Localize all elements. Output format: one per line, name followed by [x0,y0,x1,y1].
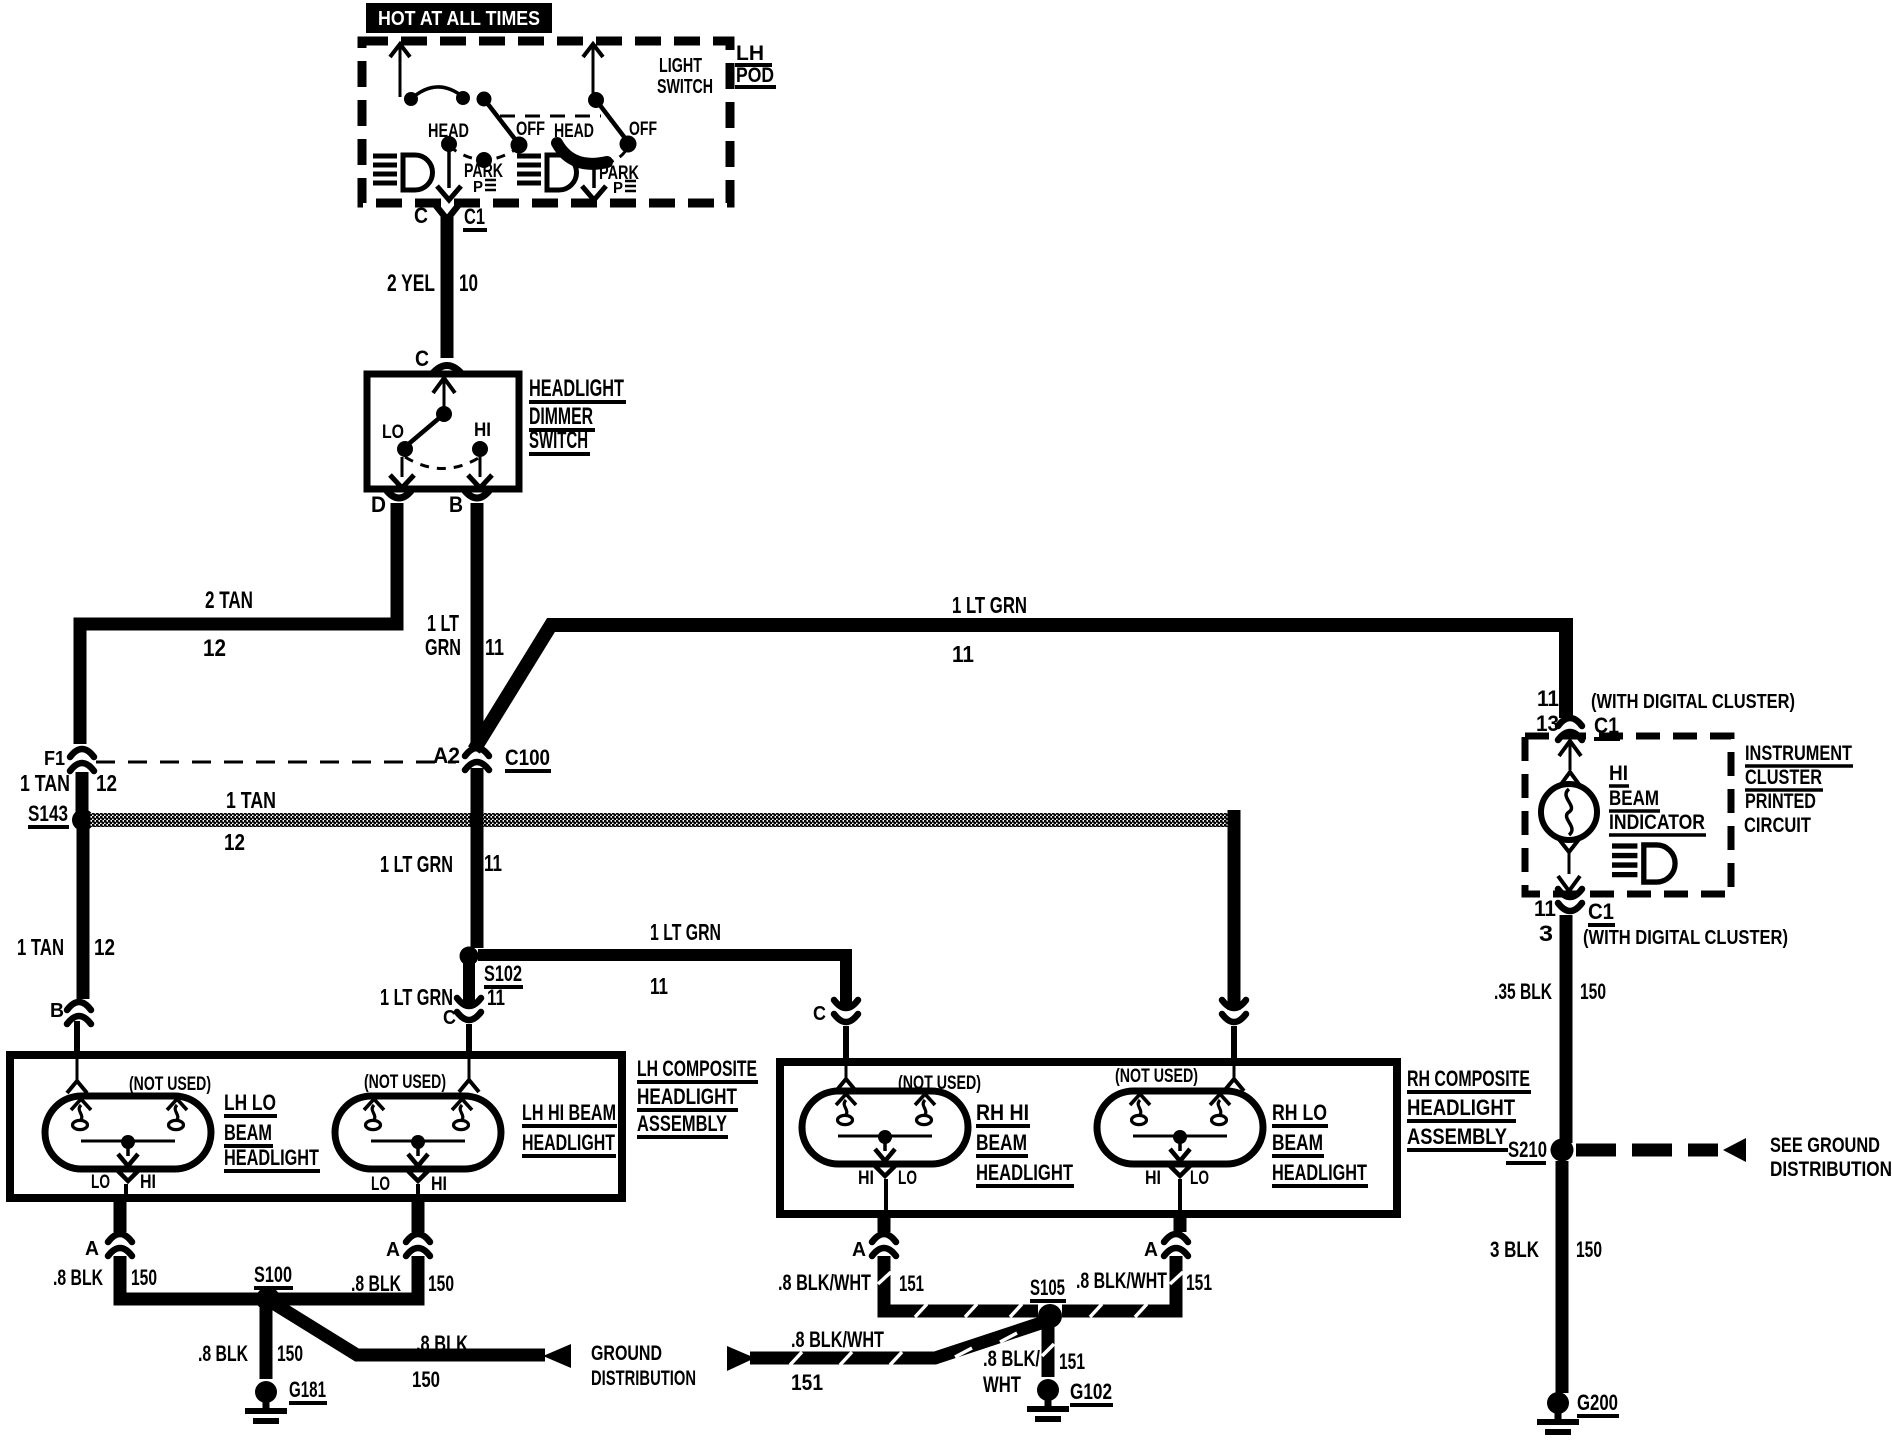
svg-text:LH HI BEAM: LH HI BEAM [522,1100,616,1125]
svg-text:1 TAN: 1 TAN [226,787,276,813]
svg-text:BEAM: BEAM [1609,787,1659,810]
dashed wire to ground distribution [1576,1144,1718,1157]
svg-text:12: 12 [96,770,117,796]
svg-text:C: C [443,1007,456,1029]
svg-text:GRN: GRN [425,634,461,660]
svg-text:G102: G102 [1070,1379,1112,1404]
svg-text:1 LT: 1 LT [427,610,459,636]
label LH LO BEAM HEADLIGHT [224,1090,320,1171]
svg-text:12: 12 [224,829,245,855]
svg-text:151: 151 [1059,1349,1085,1374]
RH lo beam bulb [1097,1079,1263,1176]
svg-text:C: C [415,346,429,371]
wire RH hi beam to A [878,1214,891,1232]
dimmer input arrow [433,378,455,413]
svg-text:SEE GROUND: SEE GROUND [1770,1134,1880,1157]
svg-text:LO: LO [91,1172,110,1193]
wire S100 down .8 BLK 150 [198,1308,303,1379]
label INSTRUMENT CLUSTER PRINTED CIRCUIT [1744,742,1853,837]
LH hi beam bulb [335,1080,501,1181]
svg-text:LO: LO [371,1174,390,1195]
label HI BEAM INDICATOR [1609,762,1706,835]
label RH HI BEAM HEADLIGHT [976,1100,1074,1186]
wire HEAD 1 down to C [437,144,461,200]
headlight dimmer switch box [367,374,519,489]
wire S102 down to C [380,963,481,1079]
label PARK 2 [599,163,639,197]
label LH POD [735,42,776,87]
svg-text:G181: G181 [289,1377,326,1402]
instrument cluster box [1525,736,1731,894]
svg-text:LO: LO [898,1168,917,1189]
svg-text:HEADLIGHT: HEADLIGHT [637,1084,737,1109]
wire S102 right 1 LT GRN 11 [478,919,846,1010]
svg-text:LO: LO [382,422,404,443]
svg-text:.35 BLK: .35 BLK [1494,979,1552,1004]
svg-text:11: 11 [487,985,505,1010]
svg-text:11: 11 [485,634,504,660]
wire .8 BLK 150 LH hi [274,1256,454,1299]
label LH HI BEAM HEADLIGHT [522,1100,617,1156]
svg-text:1 LT GRN: 1 LT GRN [952,592,1027,618]
svg-text:150: 150 [131,1265,157,1290]
svg-text:.8 BLK: .8 BLK [416,1331,468,1356]
hi beam indicator bulb [1541,741,1597,891]
svg-text:1 TAN: 1 TAN [17,934,64,960]
label LO HI at LH lo bulb [91,1172,156,1200]
svg-text:.8 BLK/: .8 BLK/ [983,1346,1040,1371]
terminal HEAD 1 [428,121,469,152]
wire 1 LT GRN 11 (B branch) [425,503,504,743]
svg-text:(NOT USED): (NOT USED) [129,1074,211,1095]
svg-text:D: D [371,492,386,517]
svg-text:1 LT GRN: 1 LT GRN [380,851,453,877]
wire .35 BLK 150 [1494,915,1606,1143]
svg-text:151: 151 [1186,1270,1212,1295]
connector D below dimmer [371,491,411,517]
svg-text:S105: S105 [1030,1275,1065,1300]
svg-text:A: A [1144,1239,1158,1261]
svg-text:B: B [449,492,463,517]
wire S143 down 1 TAN 12 [17,829,115,999]
svg-text:1 LT GRN: 1 LT GRN [650,919,721,945]
light switch box [362,41,730,203]
dimmer HI output arrow [468,457,492,488]
dimmer LO contact [382,422,413,457]
svg-text:11: 11 [952,641,974,667]
svg-text:.8 BLK/WHT: .8 BLK/WHT [791,1327,884,1352]
park dashed arc 1 [449,146,519,168]
svg-text:WHT: WHT [983,1372,1021,1397]
svg-text:HI: HI [1145,1168,1161,1189]
svg-text:A: A [852,1239,866,1261]
svg-text:S102: S102 [484,961,522,986]
svg-text:2 YEL: 2 YEL [387,270,435,297]
svg-text:HEADLIGHT: HEADLIGHT [976,1160,1073,1185]
svg-text:C1: C1 [1588,899,1614,924]
RH hi beam bulb [802,1079,968,1176]
svg-text:(NOT USED): (NOT USED) [1115,1066,1198,1087]
light switch pole 1 wiper arm [404,87,518,143]
connector A RH lo [1144,1234,1188,1261]
pole 2 thick head contact arc [557,143,607,164]
svg-text:C100: C100 [505,745,550,770]
svg-text:CLUSTER: CLUSTER [1745,766,1822,789]
svg-text:C1: C1 [464,204,485,229]
wire 2 TAN 12 (D branch) [80,503,397,744]
svg-text:HI: HI [1609,762,1628,785]
connector F1 [44,748,94,771]
svg-text:HI: HI [431,1174,447,1195]
svg-text:150: 150 [1580,979,1606,1004]
connector A LH hi [386,1234,430,1261]
svg-text:LO: LO [1190,1168,1209,1189]
splice S102 [460,947,524,1011]
svg-text:150: 150 [277,1341,303,1366]
off page arrow ground distribution [543,1342,696,1390]
svg-text:DIMMER: DIMMER [529,403,593,430]
wire 1 LT GRN 11 long to cluster [474,592,1566,750]
svg-text:(NOT USED): (NOT USED) [364,1072,446,1093]
svg-text:BEAM: BEAM [976,1130,1027,1155]
svg-text:A: A [386,1239,400,1261]
svg-text:RH COMPOSITE: RH COMPOSITE [1407,1066,1530,1091]
gang dashed link [500,115,601,118]
pole 2 dashed arc to OFF [606,147,628,163]
svg-text:.8 BLK: .8 BLK [198,1341,248,1366]
svg-text:S143: S143 [28,801,68,826]
dimmer HI contact [472,420,491,457]
svg-text:LH LO: LH LO [224,1090,276,1115]
wire .8 BLK/WHT 151 to off page [750,1322,1044,1395]
label LH COMPOSITE HEADLIGHT ASSEMBLY [637,1056,758,1137]
svg-text:RH LO: RH LO [1272,1100,1327,1125]
dimmer LO output arrow [390,457,414,488]
label RH LO BEAM HEADLIGHT [1272,1100,1368,1186]
svg-text:150: 150 [428,1271,454,1296]
svg-text:A2: A2 [433,743,460,768]
headlamp icon cluster [1612,845,1675,882]
hot at all times label [366,3,552,33]
wire pole 2 down arrow [582,165,606,200]
svg-text:ASSEMBLY: ASSEMBLY [637,1111,727,1136]
svg-text:C: C [414,203,428,228]
connector C1 top of cluster [1536,686,1795,740]
ground G200 [1537,1390,1619,1432]
svg-text:151: 151 [791,1370,823,1395]
svg-text:HEADLIGHT: HEADLIGHT [522,1130,615,1155]
headlamp icon left [373,155,433,190]
wire .8 BLK 150 LH lo [53,1256,262,1299]
svg-text:11: 11 [1534,896,1556,921]
svg-text:HEADLIGHT: HEADLIGHT [224,1145,319,1170]
svg-text:P: P [613,180,623,197]
label 1 TAN 12 at F1 [20,770,117,796]
svg-text:INDICATOR: INDICATOR [1609,811,1705,834]
svg-text:HEADLIGHT: HEADLIGHT [529,375,624,402]
terminal OFF 1 [511,119,546,154]
svg-text:3 BLK: 3 BLK [1490,1237,1539,1262]
connector C at dimmer [415,346,461,373]
svg-text:PARK: PARK [464,161,503,182]
svg-text:G200: G200 [1577,1390,1618,1415]
svg-text:150: 150 [412,1367,440,1392]
splice S210 [1506,1137,1574,1163]
svg-text:3: 3 [1539,921,1553,946]
light switch pole 2 wiper arm [588,92,628,142]
wire .8 BLK 150 to ground distribution [273,1303,545,1392]
wire .8 BLK/WHT 151 RH hi [778,1256,1038,1317]
svg-text:HEADLIGHT: HEADLIGHT [1272,1160,1367,1185]
svg-text:10: 10 [459,270,478,297]
label LO HI at LH hi bulb [371,1174,447,1200]
svg-text:(WITH DIGITAL CLUSTER): (WITH DIGITAL CLUSTER) [1583,927,1788,949]
splice S105 [1030,1275,1066,1328]
connector A LH lo [85,1234,132,1260]
connector C1 bottom of cluster [1534,889,1788,949]
wire LH lo beam to A [114,1198,127,1232]
RH composite headlight assembly box [780,1062,1397,1214]
svg-text:BEAM: BEAM [224,1120,272,1145]
svg-text:RH HI: RH HI [976,1100,1029,1125]
svg-text:SWITCH: SWITCH [529,427,588,454]
svg-text:C: C [813,1003,826,1025]
svg-text:11: 11 [650,973,668,999]
svg-text:(WITH DIGITAL CLUSTER): (WITH DIGITAL CLUSTER) [1591,691,1795,713]
dimmer wiper [405,406,452,447]
off page arrow left [727,1346,755,1371]
wire 3 BLK 150 [1490,1161,1602,1393]
svg-text:CIRCUIT: CIRCUIT [1744,814,1811,837]
svg-text:S210: S210 [1508,1137,1547,1162]
svg-text:1 TAN: 1 TAN [20,770,70,796]
svg-text:SWITCH: SWITCH [657,76,713,98]
LH lo beam bulb [45,1081,211,1181]
svg-text:LH COMPOSITE: LH COMPOSITE [637,1056,757,1081]
svg-text:POD: POD [736,64,774,87]
svg-text:HI: HI [474,420,491,441]
label LIGHT SWITCH [657,55,713,98]
connector A2 / C100 [433,743,551,771]
splice S100 [254,1262,293,1311]
headlamp icon right [517,155,577,190]
svg-text:ASSEMBLY: ASSEMBLY [1407,1124,1507,1149]
svg-text:HOT AT ALL TIMES: HOT AT ALL TIMES [378,8,540,30]
label HI LO at RH lo bulb [1145,1168,1209,1216]
svg-text:.8 BLK/WHT: .8 BLK/WHT [1076,1268,1167,1293]
svg-text:P: P [473,179,483,196]
svg-text:BEAM: BEAM [1272,1130,1323,1155]
svg-text:OFF: OFF [629,119,657,140]
svg-text:A: A [85,1238,99,1260]
wire .8 BLK/WHT 151 RH lo [1062,1256,1212,1317]
connector B below dimmer [449,491,489,517]
svg-text:GROUND: GROUND [591,1342,662,1365]
wire fuzzy branch down to RH lo beam [1222,810,1246,1078]
connector C at RH hi beam [813,1000,858,1078]
off page arrow see ground distribution [1723,1134,1892,1181]
svg-text:.8 BLK: .8 BLK [351,1271,401,1296]
svg-text:HI: HI [858,1168,874,1189]
terminal OFF 2 [620,119,658,153]
svg-text:2 TAN: 2 TAN [205,587,253,614]
svg-text:12: 12 [203,635,226,662]
wire S105 down .8 BLK/WHT 151 [983,1325,1085,1397]
wire F1 to S143 [76,772,89,812]
label HEADLIGHT DIMMER SWITCH [529,375,626,454]
connector C / C1 below light switch [414,202,487,230]
light switch pole 1 feed arrow [390,44,410,97]
svg-text:.8 BLK: .8 BLK [53,1265,103,1290]
wire 2 YEL 10 [387,216,478,358]
svg-text:HI: HI [140,1172,156,1193]
light switch pole 2 feed arrow [583,44,603,97]
dimmer dashed arc [405,457,480,469]
svg-text:12: 12 [94,934,115,960]
fuzzy wire 1 TAN 12 to RH [90,787,1237,855]
svg-text:DISTRIBUTION: DISTRIBUTION [591,1367,696,1390]
svg-text:11: 11 [1537,686,1559,711]
label HI LO at RH hi bulb [858,1168,917,1216]
svg-text:HEADLIGHT: HEADLIGHT [1407,1095,1515,1120]
svg-text:13: 13 [1536,711,1559,736]
svg-text:PRINTED: PRINTED [1745,790,1816,813]
svg-text:11: 11 [484,850,502,876]
svg-text:F1: F1 [44,748,65,770]
svg-text:LIGHT: LIGHT [659,55,702,77]
splice S143 [28,801,94,831]
svg-text:DISTRIBUTION: DISTRIBUTION [1770,1158,1892,1181]
connector B at LH lo beam [50,1000,91,1080]
connector A RH hi [852,1234,896,1261]
label RH COMPOSITE HEADLIGHT ASSEMBLY [1407,1066,1531,1150]
svg-text:151: 151 [899,1271,924,1296]
ground G181 [245,1377,327,1421]
LH composite headlight assembly box [10,1055,622,1198]
wire RH lo beam to A [1174,1214,1187,1232]
svg-text:INSTRUMENT: INSTRUMENT [1745,742,1852,765]
wire A2 down 1 LT GRN 11 [380,768,502,948]
svg-text:.8 BLK/WHT: .8 BLK/WHT [778,1270,871,1295]
dashed mating line F1 to A2 [96,761,456,764]
svg-text:LH: LH [736,42,764,65]
svg-text:B: B [50,1000,64,1022]
ground G102 [1027,1379,1113,1419]
svg-text:S100: S100 [254,1262,292,1287]
wire LH hi beam to A [412,1198,425,1232]
svg-text:150: 150 [1576,1237,1602,1262]
label PARK 1 [464,161,503,196]
